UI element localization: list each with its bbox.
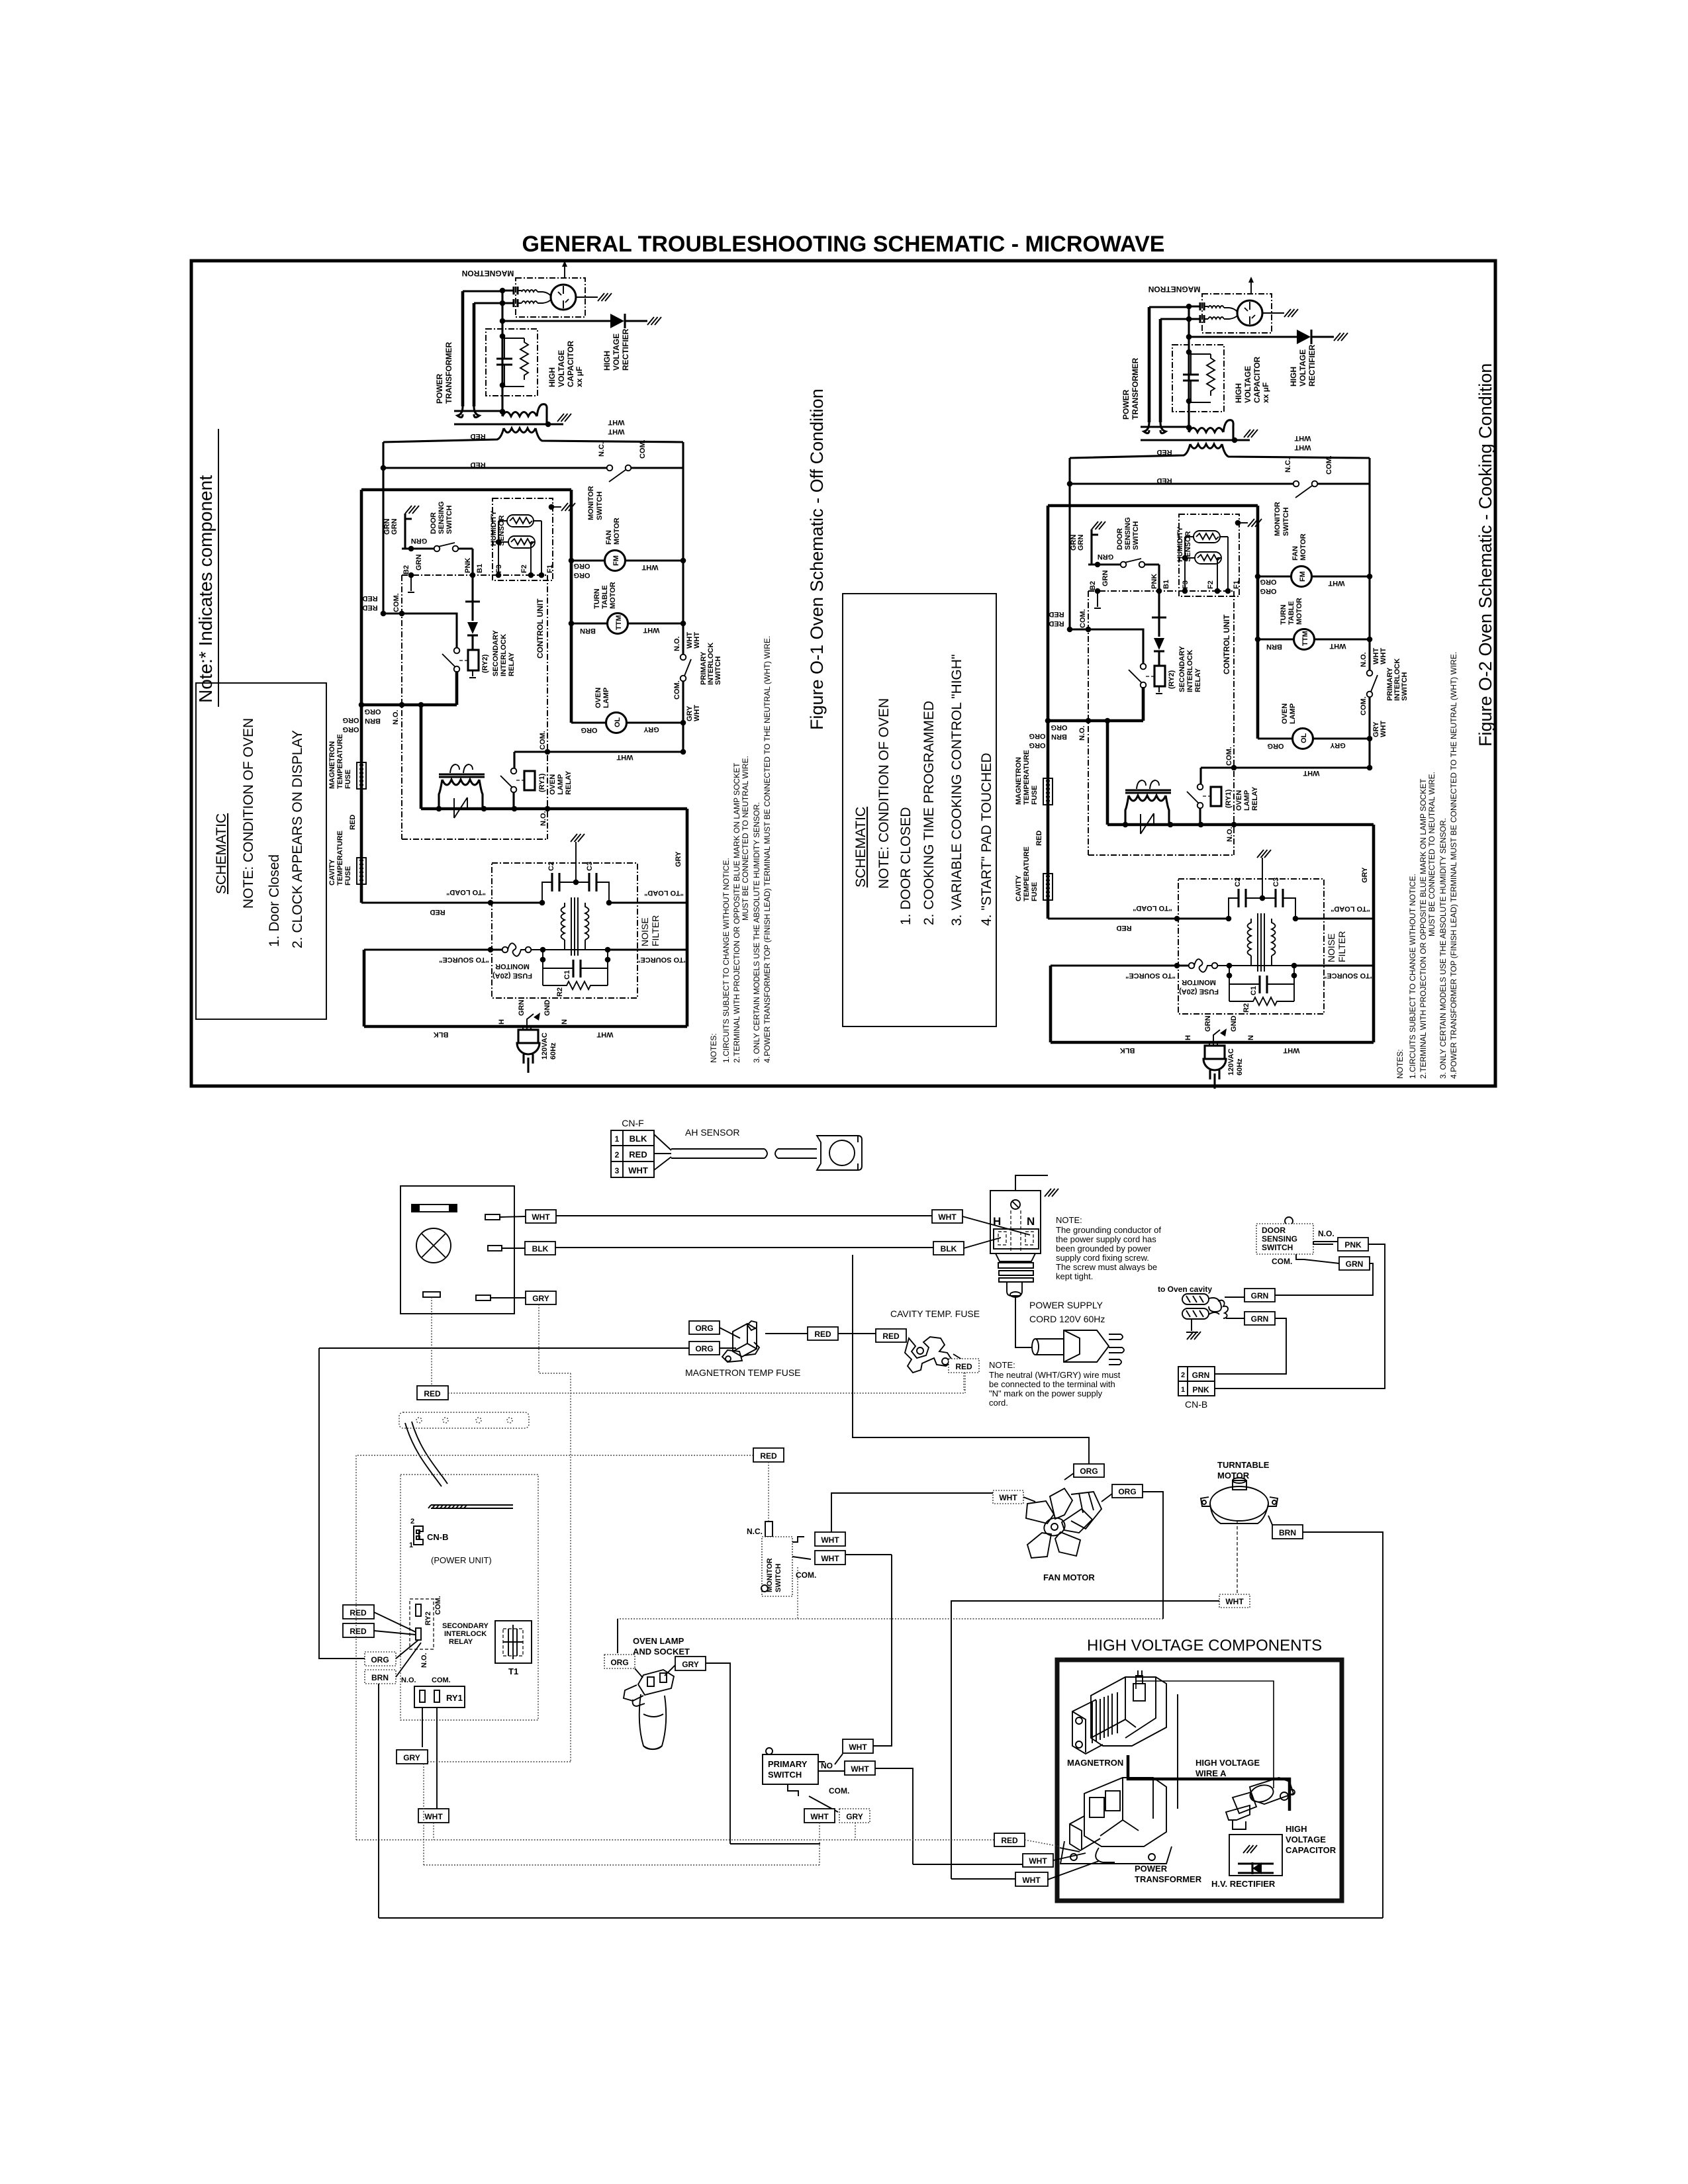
svg-text:DOOR: DOOR [1262,1226,1286,1235]
svg-text:C2: C2 [547,862,555,871]
svg-text:FM: FM [612,555,620,566]
outer border box of schematic sheet [191,261,1495,1086]
svg-text:TEMPERATURE: TEMPERATURE [336,734,344,789]
monitor to fan WHT wire [831,1493,993,1532]
svg-text:2. CLOCK APPEARS ON DISPLAY: 2. CLOCK APPEARS ON DISPLAY [290,730,305,948]
relay RY1 (oven lamp relay) [511,768,517,774]
svg-text:3. VARIABLE COOKING CONTROL "H: 3. VARIABLE COOKING CONTROL "HIGH" [949,655,964,926]
svg-text:N.O.: N.O. [420,1653,428,1668]
svg-text:GRN: GRN [391,519,399,535]
svg-text:WHT: WHT [851,1764,869,1774]
POWER UNIT box [400,1475,538,1720]
svg-text:WHT: WHT [938,1212,957,1222]
svg-text:WHT: WHT [616,753,633,761]
primary winding [504,428,536,433]
svg-text:WHT: WHT [810,1812,829,1821]
svg-text:H.V. RECTIFIER: H.V. RECTIFIER [1211,1879,1276,1889]
svg-text:SENSING: SENSING [438,501,445,534]
svg-text:ORG: ORG [695,1344,713,1353]
main RED bus with monitor switch [382,442,384,614]
svg-text:H: H [498,1019,506,1024]
magnetron temp fuse pictorial [722,1321,759,1362]
svg-text:INTERLOCK: INTERLOCK [444,1630,487,1638]
monitor COM dotted [797,1567,798,1619]
ground right of magnetron [576,296,598,298]
svg-text:ORG: ORG [573,562,590,570]
svg-text:CAVITY: CAVITY [328,859,336,886]
svg-text:GRY: GRY [846,1812,863,1821]
svg-text:N.C.: N.C. [747,1527,763,1536]
svg-text:MAGNETRON TEMP FUSE: MAGNETRON TEMP FUSE [685,1367,801,1378]
svg-text:TRANSFORMER: TRANSFORMER [444,341,453,404]
svg-text:RELAY: RELAY [565,770,573,795]
svg-text:NOISE: NOISE [639,917,650,946]
GRY wire to vertical 862 [428,1304,571,1762]
svg-text:TURN: TURN [593,588,601,609]
svg-text:FUSE: FUSE [344,866,352,886]
svg-text:NOTE: CONDITION OF OVEN: NOTE: CONDITION OF OVEN [876,698,892,889]
svg-text:GRN: GRN [518,1000,526,1017]
svg-text:RY1: RY1 [446,1693,463,1703]
magnetron temperature fuse [357,762,366,789]
svg-text:POWER: POWER [435,373,444,404]
right schematic copy [1015,277,1458,1089]
svg-text:MAGNETRON: MAGNETRON [1067,1758,1123,1768]
svg-text:T1: T1 [508,1666,518,1676]
svg-text:Figure O-1 Oven Schematic - Of: Figure O-1 Oven Schematic - Off Conditio… [807,388,827,730]
capacitor C1 and resistor R2 [543,950,608,985]
svg-text:4. "START" PAD TOUCHED: 4. "START" PAD TOUCHED [979,752,994,926]
svg-text:COM.: COM. [796,1570,816,1580]
svg-text:COM.: COM. [673,680,681,700]
power transformer pictorial [1060,1778,1172,1864]
svg-text:CN-B: CN-B [427,1532,449,1542]
svg-text:"TO LOAD": "TO LOAD" [644,889,684,897]
svg-text:RECTIFIER: RECTIFIER [621,328,630,371]
svg-text:RED: RED [430,908,445,916]
svg-text:GRN: GRN [1251,1314,1269,1324]
svg-text:MOTOR: MOTOR [609,582,617,609]
svg-text:(RY2): (RY2) [481,654,489,673]
HV rectifier branch [502,320,610,322]
svg-text:WHT: WHT [608,428,624,435]
svg-text:NOTE:: NOTE: [989,1360,1015,1370]
svg-text:BLK: BLK [941,1244,957,1253]
svg-text:CAVITY TEMP. FUSE: CAVITY TEMP. FUSE [890,1308,980,1319]
transformer T1 [495,1621,532,1663]
svg-text:RED: RED [760,1451,777,1461]
svg-text:F1: F1 [546,565,554,573]
two thick leads from transformer filament winding up to magnetron [461,291,465,406]
svg-text:SCHEMATIC: SCHEMATIC [214,813,229,894]
svg-text:PNK: PNK [1344,1240,1362,1250]
svg-text:WHT: WHT [1022,1876,1041,1885]
svg-text:WHT: WHT [999,1493,1017,1502]
svg-text:CONTROL UNIT: CONTROL UNIT [536,598,545,659]
svg-text:1.CIRCUITS SUBJECT TO CHANGE W: 1.CIRCUITS SUBJECT TO CHANGE WITHOUT NOT… [722,858,731,1063]
svg-text:SWITCH: SWITCH [445,506,453,534]
svg-text:2: 2 [615,1150,620,1160]
grounding note [1056,1215,1161,1281]
left RED box and long line [431,1297,432,1386]
svg-text:2: 2 [1181,1371,1185,1379]
svg-text:COM.: COM. [432,1676,451,1684]
svg-text:WHT: WHT [821,1554,839,1563]
svg-text:N: N [1027,1215,1035,1228]
svg-text:N.O.: N.O. [401,1676,416,1684]
svg-text:ORG: ORG [581,726,597,734]
svg-text:RED: RED [349,815,357,830]
svg-text:BRN: BRN [365,717,381,725]
svg-text:RY2: RY2 [424,1612,432,1625]
svg-text:Figure O-2 Oven Schematic - Co: Figure O-2 Oven Schematic - Cooking Cond… [1476,363,1495,747]
svg-text:TTM: TTM [615,615,623,630]
magnetron dashed box [516,278,585,317]
svg-text:WHT: WHT [1029,1856,1047,1866]
ORG feed from top [853,1255,1089,1464]
svg-text:N: N [561,1019,569,1024]
svg-text:HIGH: HIGH [547,367,557,387]
GRY / WHT below power unit [422,1707,423,1747]
svg-text:RED: RED [350,1608,367,1617]
relay RY2 contact [454,648,460,654]
svg-text:AH SENSOR: AH SENSOR [685,1127,739,1138]
svg-text:The screw must always be: The screw must always be [1056,1262,1157,1272]
svg-text:FUSE (20A): FUSE (20A) [492,972,532,979]
choke transformer [561,903,589,940]
svg-text:BRN: BRN [371,1673,389,1682]
svg-text:ORG: ORG [695,1324,713,1333]
svg-text:BLK: BLK [532,1244,549,1253]
svg-text:BRN: BRN [1279,1528,1296,1537]
svg-text:SECONDARY: SECONDARY [492,629,500,676]
oven lamp OL [571,721,606,723]
svg-text:TRANSFORMER: TRANSFORMER [1135,1874,1202,1884]
svg-text:MONITOR: MONITOR [587,486,595,520]
svg-text:"N" mark on the power sup: "N" mark on the power supply [989,1388,1103,1398]
svg-text:COM.: COM. [434,1596,442,1615]
svg-text:POWER: POWER [1135,1864,1168,1874]
junctions on feed column [500,288,506,294]
svg-text:NO: NO [821,1761,833,1770]
svg-text:POWER SUPPLY: POWER SUPPLY [1029,1300,1103,1310]
svg-text:GRY: GRY [682,1660,699,1669]
svg-text:"TO SOURCE": "TO SOURCE" [439,956,489,964]
svg-text:GRY: GRY [643,725,659,733]
svg-text:GRY: GRY [675,851,682,867]
primary interlock switch [680,655,686,660]
svg-text:F3: F3 [495,565,503,573]
svg-text:ORG: ORG [1080,1467,1098,1476]
svg-text:DOOR: DOOR [430,512,438,534]
svg-text:C3: C3 [586,862,594,871]
svg-text:ORG: ORG [342,716,359,724]
svg-text:GENERAL TROUBLESHOOTING SCHEMA: GENERAL TROUBLESHOOTING SCHEMATIC - MICR… [522,232,1165,257]
diode + relay RY2 coil (secondary interlock) [465,575,480,621]
svg-text:TURNTABLE: TURNTABLE [1217,1460,1270,1470]
svg-text:COM.: COM. [393,593,400,612]
svg-text:H: H [993,1215,1001,1228]
RED boxes + cavity temp fuse [765,1333,808,1334]
svg-text:MAGNETRON: MAGNETRON [328,741,336,789]
NOTES block [709,636,772,1063]
svg-text:MUST BE CONNECTED TO NEUTRAL W: MUST BE CONNECTED TO NEUTRAL WIRE. [741,756,750,921]
svg-text:GRN: GRN [415,555,423,571]
HV capacitor dashed box [486,329,538,396]
svg-text:ORG: ORG [342,725,359,733]
relay RY2 (power unit) [410,1599,434,1649]
svg-text:GRN: GRN [1251,1291,1269,1300]
magnetron pictorial [1072,1670,1166,1754]
svg-text:(POWER UNIT): (POWER UNIT) [431,1555,492,1565]
svg-text:120VAC: 120VAC [541,1032,549,1060]
svg-text:2.TERMINAL WITH PROJECTION OR: 2.TERMINAL WITH PROJECTION OR OPPOSITE B… [732,762,741,1063]
svg-text:"TO LOAD": "TO LOAD" [446,888,486,896]
control unit dashed box [402,575,547,839]
svg-text:GRN: GRN [411,537,428,545]
svg-text:SECONDARY: SECONDARY [442,1622,489,1630]
svg-text:SENSING: SENSING [1262,1234,1297,1244]
N.O. bus [361,671,457,705]
svg-text:N.C.: N.C. [598,442,606,457]
svg-text:RED: RED [955,1362,972,1371]
ORG boxes + magnetron temp fuse [319,1347,689,1349]
svg-text:BLK: BLK [630,1134,647,1144]
primary switch [763,1754,818,1784]
svg-text:WHT: WHT [596,1030,613,1038]
fan ORG boxes [1074,1464,1104,1477]
svg-text:WHT: WHT [641,563,658,571]
svg-text:The grounding conductor of: The grounding conductor of [1056,1225,1161,1235]
svg-text:SWITCH: SWITCH [1262,1243,1293,1252]
BRN wire down right side [379,1532,1383,1918]
humidity sensor [492,498,553,580]
svg-text:HIGH VOLTAGE COMPONENTS: HIGH VOLTAGE COMPONENTS [1087,1637,1322,1655]
svg-text:B1: B1 [476,564,484,573]
svg-text:GND: GND [543,1000,551,1017]
svg-text:RED: RED [362,604,377,612]
AH sensor head [817,1136,862,1170]
svg-text:COM.: COM. [1272,1257,1292,1266]
HV winding [501,412,503,416]
svg-text:VOLTAGE: VOLTAGE [612,334,621,371]
svg-text:RED: RED [470,432,485,440]
svg-text:WHT: WHT [424,1812,443,1821]
monitor fuse (20A) on TO SOURCE line [364,948,502,950]
svg-text:OVEN LAMP: OVEN LAMP [633,1636,684,1646]
svg-text:PNK: PNK [464,558,472,573]
svg-text:2. COOKING TIME PROGRAMMED: 2. COOKING TIME PROGRAMMED [921,701,937,925]
svg-text:HIGH: HIGH [1286,1824,1307,1834]
svg-text:RELAY: RELAY [508,652,516,676]
svg-text:COM.: COM. [829,1786,849,1796]
right schematic note box [843,594,996,1026]
low voltage transformer (RY coil supply) [439,774,485,777]
svg-text:WHT: WHT [532,1212,550,1222]
svg-text:N.O.: N.O. [392,709,400,725]
svg-text:VOLTAGE: VOLTAGE [557,350,566,387]
svg-text:supply cord fixing screw.: supply cord fixing screw. [1056,1253,1149,1263]
svg-text:NOTE: CONDITION OF OVEN: NOTE: CONDITION OF OVEN [241,718,256,909]
control panel box [400,1186,514,1314]
svg-text:COM.: COM. [639,439,647,459]
svg-text:NOTES:: NOTES: [709,1033,718,1063]
svg-text:SCHEMATIC: SCHEMATIC [853,807,868,887]
svg-text:1: 1 [1181,1386,1185,1394]
svg-text:VOLTAGE: VOLTAGE [1286,1835,1326,1844]
door sensing switch assembly (top right) [1285,1217,1293,1225]
svg-text:"TO SOURCE": "TO SOURCE" [637,956,687,964]
svg-text:WHT: WHT [849,1743,867,1752]
svg-text:GRN: GRN [1346,1259,1364,1269]
svg-text:N.O.: N.O. [1318,1229,1335,1238]
turntable WHT drop [1237,1521,1238,1594]
thick bus frame [361,490,571,903]
svg-text:BLK: BLK [434,1030,449,1038]
cavity temperature fuse [357,858,366,884]
long WHT / BLK wires to power cord [556,1215,932,1216]
svg-text:RELAY: RELAY [449,1638,473,1646]
svg-text:LAMP: LAMP [602,688,610,708]
svg-text:TABLE: TABLE [601,585,609,609]
svg-text:3. ONLY CERTAIN MODELS USE THE: 3. ONLY CERTAIN MODELS USE THE ABSOLUTE … [752,802,761,1063]
svg-text:ORG: ORG [364,707,381,715]
svg-text:R2: R2 [556,987,564,997]
vertical ORG feed at far left [319,1348,365,1659]
svg-text:BRN: BRN [580,627,596,635]
svg-text:ORG: ORG [371,1655,389,1664]
3-prong plug pictorial [1032,1330,1124,1365]
y2199 line + RED to monitor [357,1455,753,1456]
svg-text:MAGNETRON: MAGNETRON [462,269,514,278]
svg-text:FAN: FAN [605,530,613,545]
svg-text:ORG: ORG [573,571,590,579]
svg-text:OVEN: OVEN [594,688,602,708]
svg-text:LAMP: LAMP [557,774,565,795]
svg-text:RED: RED [1001,1836,1018,1845]
svg-text:1: 1 [615,1134,620,1144]
svg-text:to Oven cavity: to Oven cavity [1158,1285,1212,1294]
svg-text:RED: RED [882,1332,900,1341]
svg-text:WHT: WHT [608,418,624,426]
svg-text:RED: RED [362,594,377,602]
svg-text:WHT: WHT [643,626,659,634]
svg-text:SWITCH: SWITCH [596,492,604,520]
svg-text:INTERLOCK: INTERLOCK [500,634,508,676]
svg-text:AND SOCKET: AND SOCKET [633,1647,690,1657]
svg-text:N.O.: N.O. [539,811,547,826]
COM node / WHT return [680,749,686,755]
fan motor FM [571,559,605,561]
bottom bus of relay/transformer [421,705,687,809]
neutral note [989,1360,1121,1408]
core line [454,410,502,412]
svg-text:been grounded by power: been grounded by power [1056,1244,1152,1253]
HV capacitor + rectifier pictorial [1226,1778,1295,1829]
turntable motor TTM [571,622,608,624]
svg-text:F2: F2 [520,565,528,573]
high voltage wire A thick [1136,1681,1274,1788]
svg-text:N.O.: N.O. [673,636,681,651]
svg-text:WHT: WHT [821,1535,839,1545]
mounting bracket [399,1412,529,1428]
svg-text:RED: RED [814,1330,831,1339]
svg-text:COM.: COM. [539,731,547,750]
svg-text:CAPACITOR: CAPACITOR [566,340,575,387]
svg-text:ORG: ORG [610,1658,628,1667]
power supply cord plug [990,1191,1041,1253]
GRY drop / long dotted bus [855,1823,856,1840]
svg-text:SWITCH: SWITCH [768,1770,802,1780]
svg-text:RED: RED [424,1389,441,1398]
svg-text:PNK: PNK [1192,1385,1209,1394]
svg-text:RED: RED [350,1627,367,1636]
svg-text:GRN: GRN [1192,1371,1210,1380]
svg-text:2: 2 [410,1518,414,1525]
svg-text:CN-B: CN-B [1185,1399,1207,1410]
sensor cable [654,1134,671,1170]
svg-text:CORD 120V 60Hz: CORD 120V 60Hz [1029,1314,1105,1324]
svg-text:Note:* Indicates component: Note:* Indicates component [195,475,216,703]
svg-text:NOTE:: NOTE: [1056,1215,1082,1225]
svg-text:the power supply cord has: the power supply cord has [1056,1234,1156,1244]
svg-text:FAN MOTOR: FAN MOTOR [1043,1572,1095,1582]
left schematic note box [196,683,326,1019]
bottom loop and plug [364,809,687,1026]
capacitor C2 and capacitor C3 to ground [542,882,552,903]
svg-text:OVEN: OVEN [549,774,557,795]
svg-text:The neutral (WHT/GRY) wire mus: The neutral (WHT/GRY) wire must [989,1370,1121,1380]
magnetron V1 tube [551,285,576,310]
GRN / PNK routing to CN-B [1275,1263,1373,1295]
svg-text:cord.: cord. [989,1398,1008,1408]
connector CN-B (power unit) [414,1526,423,1545]
bleeder resistor (HV cap internal) [504,338,524,339]
svg-text:RED: RED [629,1150,647,1160]
svg-text:ORG: ORG [1118,1487,1136,1496]
svg-text:WHT: WHT [1225,1597,1244,1606]
fan motor pictorial [1023,1488,1102,1558]
svg-text:60Hz: 60Hz [549,1042,557,1060]
svg-text:OL: OL [614,717,622,727]
svg-text:kept tight.: kept tight. [1056,1271,1093,1281]
svg-text:1: 1 [409,1541,413,1549]
antenna arrow [564,265,565,278]
svg-text:MOTOR: MOTOR [613,518,621,545]
svg-text:PRIMARY: PRIMARY [768,1759,808,1769]
svg-text:1. DOOR CLOSED: 1. DOOR CLOSED [898,807,914,925]
svg-text:WIRE A: WIRE A [1196,1768,1227,1778]
svg-text:C1: C1 [563,970,571,979]
wires into HV box [994,1833,1025,1846]
svg-text:MONITOR: MONITOR [495,962,530,970]
svg-text:TEMPERATURE: TEMPERATURE [336,831,344,886]
svg-text:WHT: WHT [628,1165,648,1175]
svg-text:HIGH: HIGH [602,351,612,371]
svg-text:SWITCH: SWITCH [774,1564,782,1592]
svg-text:WHT: WHT [693,632,701,649]
svg-text:xx μF: xx μF [575,367,584,387]
svg-text:4.POWER TRANSFORMER TOP (FINIS: 4.POWER TRANSFORMER TOP (FINISH LEAD) TE… [763,636,772,1063]
TO LOAD line (RED) [361,901,542,903]
svg-text:FILTER: FILTER [650,915,661,946]
wire: motor feed junctions [569,558,575,564]
svg-text:1. Door Closed: 1. Door Closed [267,854,282,947]
svg-text:be connected to the terminal w: be connected to the terminal with [989,1379,1115,1389]
svg-text:WHT: WHT [693,705,701,721]
svg-text:FUSE: FUSE [344,770,352,789]
svg-text:GRY: GRY [532,1294,549,1303]
